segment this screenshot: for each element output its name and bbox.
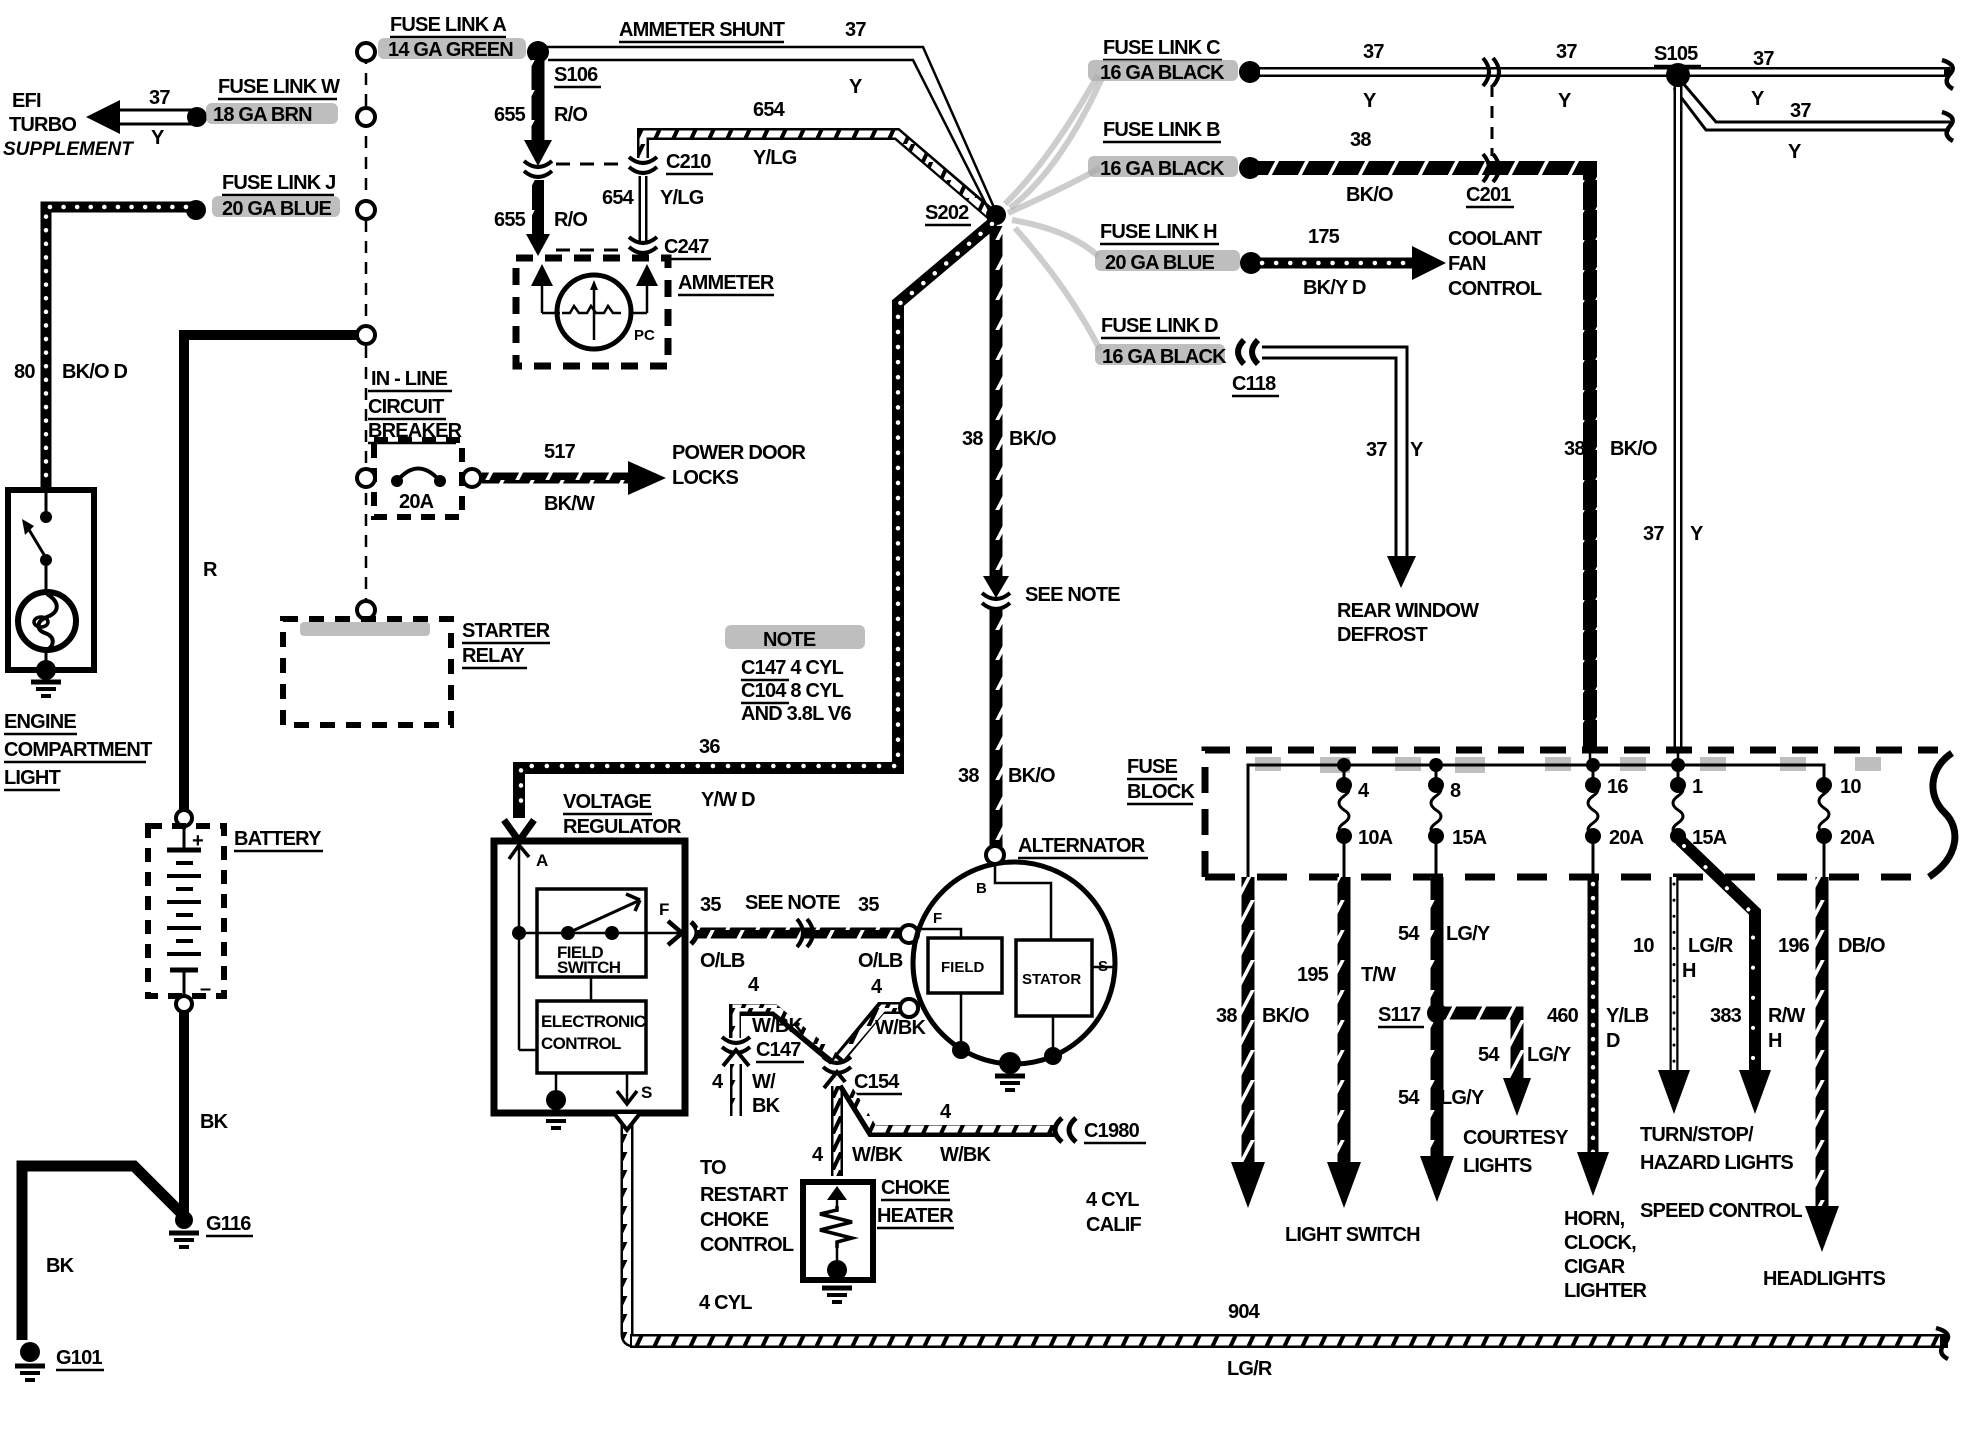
svg-text:AMMETER: AMMETER <box>678 272 775 294</box>
svg-text:655: 655 <box>494 104 526 126</box>
svg-text:H: H <box>1768 1030 1782 1052</box>
svg-text:D: D <box>1606 1030 1620 1052</box>
svg-text:W/BK: W/BK <box>852 1144 903 1166</box>
svg-text:R/O: R/O <box>554 104 587 126</box>
svg-text:CONTROL: CONTROL <box>700 1234 794 1256</box>
svg-text:C201: C201 <box>1466 184 1511 206</box>
svg-text:54: 54 <box>1398 923 1420 945</box>
svg-text:654: 654 <box>753 99 786 121</box>
svg-text:C147: C147 <box>756 1039 801 1061</box>
svg-text:IN - LINE: IN - LINE <box>371 368 448 390</box>
svg-text:REGULATOR: REGULATOR <box>563 816 682 838</box>
svg-text:37: 37 <box>1366 439 1387 461</box>
svg-text:BK: BK <box>200 1111 229 1133</box>
svg-text:Y/LB: Y/LB <box>1606 1005 1649 1027</box>
svg-text:BK/O D: BK/O D <box>62 361 128 383</box>
svg-text:38: 38 <box>1216 1005 1237 1027</box>
svg-text:FAN: FAN <box>1448 253 1486 275</box>
svg-text:C154: C154 <box>854 1071 900 1093</box>
svg-text:20 GA BLUE: 20 GA BLUE <box>1105 252 1215 274</box>
svg-text:BATTERY: BATTERY <box>234 828 322 850</box>
svg-text:36: 36 <box>699 736 720 758</box>
svg-text:TO: TO <box>700 1157 726 1179</box>
svg-text:B: B <box>976 880 987 897</box>
svg-text:W/: W/ <box>752 1071 776 1093</box>
svg-text:38: 38 <box>962 428 983 450</box>
svg-text:–: – <box>200 978 211 1000</box>
svg-text:ELECTRONIC: ELECTRONIC <box>541 1012 646 1031</box>
svg-text:O/LB: O/LB <box>700 950 745 972</box>
svg-text:LG/Y: LG/Y <box>1440 1087 1485 1109</box>
svg-text:SEE NOTE: SEE NOTE <box>745 892 840 914</box>
svg-text:FUSE LINK H: FUSE LINK H <box>1100 221 1217 243</box>
svg-text:F: F <box>933 910 942 927</box>
svg-text:10A: 10A <box>1358 827 1393 849</box>
svg-text:37: 37 <box>845 19 866 41</box>
svg-text:Y: Y <box>1690 523 1704 545</box>
svg-text:Y/LG: Y/LG <box>660 187 704 209</box>
svg-text:BLOCK: BLOCK <box>1127 781 1195 803</box>
svg-text:Y: Y <box>1410 439 1424 461</box>
svg-text:FUSE LINK D: FUSE LINK D <box>1101 315 1218 337</box>
svg-text:S117: S117 <box>1378 1004 1421 1026</box>
svg-text:COMPARTMENT: COMPARTMENT <box>4 739 152 761</box>
svg-text:BK: BK <box>752 1095 781 1117</box>
svg-text:RELAY: RELAY <box>462 645 525 667</box>
svg-text:CIRCUIT: CIRCUIT <box>368 396 444 418</box>
svg-text:16 GA BLACK: 16 GA BLACK <box>1100 158 1225 180</box>
svg-text:BK/O: BK/O <box>1009 428 1056 450</box>
svg-text:AMMETER SHUNT: AMMETER SHUNT <box>619 19 785 41</box>
svg-text:STARTER: STARTER <box>462 620 551 642</box>
svg-text:BK/O: BK/O <box>1610 438 1657 460</box>
svg-text:NOTE: NOTE <box>763 629 816 651</box>
svg-text:HORN,: HORN, <box>1564 1208 1625 1230</box>
svg-text:DB/O: DB/O <box>1838 935 1885 957</box>
svg-text:383: 383 <box>1710 1005 1742 1027</box>
svg-text:4: 4 <box>812 1144 824 1166</box>
svg-text:37: 37 <box>1363 41 1384 63</box>
svg-text:W/BK: W/BK <box>940 1144 991 1166</box>
svg-text:G116: G116 <box>206 1213 251 1235</box>
svg-text:4: 4 <box>871 976 883 998</box>
svg-text:AND 3.8L V6: AND 3.8L V6 <box>741 703 851 725</box>
svg-text:FUSE: FUSE <box>1127 756 1178 778</box>
svg-text:SPEED CONTROL: SPEED CONTROL <box>1640 1200 1802 1222</box>
svg-text:HEADLIGHTS: HEADLIGHTS <box>1763 1268 1885 1290</box>
svg-text:38: 38 <box>1564 438 1585 460</box>
svg-text:+: + <box>192 830 203 852</box>
svg-text:Y: Y <box>849 76 863 98</box>
svg-text:FUSE LINK A: FUSE LINK A <box>390 14 506 36</box>
svg-text:35: 35 <box>700 894 721 916</box>
svg-text:S105: S105 <box>1654 43 1698 65</box>
svg-text:16: 16 <box>1607 776 1628 798</box>
svg-text:CIGAR: CIGAR <box>1564 1256 1626 1278</box>
svg-text:4 CYL: 4 CYL <box>1086 1189 1139 1211</box>
svg-text:BK/Y D: BK/Y D <box>1303 277 1366 299</box>
svg-text:S202: S202 <box>925 202 969 224</box>
svg-text:A: A <box>536 851 548 870</box>
svg-text:VOLTAGE: VOLTAGE <box>563 791 652 813</box>
svg-text:20 GA BLUE: 20 GA BLUE <box>222 198 332 220</box>
svg-text:37: 37 <box>1753 48 1774 70</box>
svg-text:4: 4 <box>712 1071 724 1093</box>
svg-text:R: R <box>203 559 218 581</box>
svg-text:SWITCH: SWITCH <box>557 958 621 977</box>
svg-text:Y: Y <box>1558 90 1572 112</box>
svg-text:O/LB: O/LB <box>858 950 903 972</box>
svg-text:TURBO: TURBO <box>9 114 76 136</box>
svg-text:20A: 20A <box>1840 827 1875 849</box>
svg-text:54: 54 <box>1478 1044 1500 1066</box>
svg-text:FUSE LINK W: FUSE LINK W <box>218 76 340 98</box>
svg-text:CHOKE: CHOKE <box>881 1177 950 1199</box>
svg-text:14 GA GREEN: 14 GA GREEN <box>388 39 513 61</box>
svg-text:W/BK: W/BK <box>752 1015 803 1037</box>
svg-text:C118: C118 <box>1232 373 1276 395</box>
svg-text:SUPPLEMENT: SUPPLEMENT <box>3 139 134 160</box>
svg-text:175: 175 <box>1308 226 1340 248</box>
svg-text:654: 654 <box>602 187 635 209</box>
svg-text:RESTART: RESTART <box>700 1184 788 1206</box>
svg-text:4 CYL: 4 CYL <box>699 1292 752 1314</box>
svg-text:LG/R: LG/R <box>1227 1358 1273 1380</box>
svg-text:655: 655 <box>494 209 526 231</box>
svg-text:BK/O: BK/O <box>1008 765 1055 787</box>
svg-text:80: 80 <box>14 361 35 383</box>
svg-text:H: H <box>1682 960 1696 982</box>
svg-text:1: 1 <box>1692 776 1703 798</box>
svg-text:R/O: R/O <box>554 209 587 231</box>
svg-text:15A: 15A <box>1692 827 1727 849</box>
svg-text:4: 4 <box>1358 780 1370 802</box>
svg-text:PC: PC <box>634 327 655 344</box>
svg-text:FUSE LINK J: FUSE LINK J <box>222 172 335 194</box>
svg-text:16 GA BLACK: 16 GA BLACK <box>1100 62 1225 84</box>
svg-text:T/W: T/W <box>1361 964 1396 986</box>
svg-text:CONTROL: CONTROL <box>1448 278 1542 300</box>
svg-text:20A: 20A <box>399 491 434 513</box>
svg-text:37: 37 <box>1643 523 1664 545</box>
svg-text:W/BK: W/BK <box>875 1017 926 1039</box>
svg-text:LIGHT: LIGHT <box>4 767 61 789</box>
svg-text:LG/R: LG/R <box>1688 935 1734 957</box>
svg-text:BK/O: BK/O <box>1262 1005 1309 1027</box>
svg-text:STATOR: STATOR <box>1022 971 1081 988</box>
svg-text:LIGHTER: LIGHTER <box>1564 1280 1648 1302</box>
svg-text:POWER DOOR: POWER DOOR <box>672 442 806 464</box>
svg-text:EFI: EFI <box>12 90 41 112</box>
svg-text:S: S <box>641 1083 652 1102</box>
svg-text:BK/O: BK/O <box>1346 184 1393 206</box>
svg-text:35: 35 <box>858 894 879 916</box>
svg-text:R/W: R/W <box>1768 1005 1805 1027</box>
svg-text:CHOKE: CHOKE <box>700 1209 769 1231</box>
svg-text:38: 38 <box>958 765 979 787</box>
svg-text:C147 4 CYL: C147 4 CYL <box>741 657 844 679</box>
svg-text:DEFROST: DEFROST <box>1337 624 1428 646</box>
svg-text:Y/LG: Y/LG <box>753 147 797 169</box>
svg-text:BK/W: BK/W <box>544 493 595 515</box>
svg-text:F: F <box>659 900 669 919</box>
svg-text:18 GA BRN: 18 GA BRN <box>213 104 312 126</box>
svg-text:G101: G101 <box>56 1347 102 1369</box>
svg-text:54: 54 <box>1398 1087 1420 1109</box>
svg-text:904: 904 <box>1228 1301 1261 1323</box>
svg-text:FUSE LINK C: FUSE LINK C <box>1103 37 1220 59</box>
svg-text:37: 37 <box>149 87 170 109</box>
svg-text:Y: Y <box>1751 88 1765 110</box>
svg-text:CALIF: CALIF <box>1086 1214 1141 1236</box>
svg-text:4: 4 <box>940 1101 952 1123</box>
svg-text:38: 38 <box>1350 129 1371 151</box>
svg-text:196: 196 <box>1778 935 1810 957</box>
svg-text:460: 460 <box>1547 1005 1579 1027</box>
svg-text:195: 195 <box>1297 964 1329 986</box>
svg-text:LG/Y: LG/Y <box>1527 1044 1572 1066</box>
svg-text:Y/W D: Y/W D <box>701 789 755 811</box>
svg-text:15A: 15A <box>1452 827 1487 849</box>
svg-text:LG/Y: LG/Y <box>1446 923 1491 945</box>
svg-text:LIGHTS: LIGHTS <box>1463 1155 1532 1177</box>
svg-text:C104 8 CYL: C104 8 CYL <box>741 680 844 702</box>
svg-text:COURTESY: COURTESY <box>1463 1127 1569 1149</box>
svg-text:37: 37 <box>1790 100 1811 122</box>
svg-text:HAZARD LIGHTS: HAZARD LIGHTS <box>1640 1152 1793 1174</box>
svg-text:ENGINE: ENGINE <box>4 711 76 733</box>
svg-text:HEATER: HEATER <box>877 1205 954 1227</box>
svg-text:FUSE LINK B: FUSE LINK B <box>1103 119 1220 141</box>
svg-text:4: 4 <box>748 974 760 996</box>
svg-text:517: 517 <box>544 441 576 463</box>
svg-text:20A: 20A <box>1609 827 1644 849</box>
svg-text:Y: Y <box>1788 141 1802 163</box>
svg-text:CONTROL: CONTROL <box>541 1034 621 1053</box>
svg-text:COOLANT: COOLANT <box>1448 228 1542 250</box>
svg-text:16 GA BLACK: 16 GA BLACK <box>1102 346 1227 368</box>
svg-text:10: 10 <box>1633 935 1654 957</box>
svg-text:FIELD: FIELD <box>941 959 984 976</box>
svg-text:ALTERNATOR: ALTERNATOR <box>1018 835 1146 857</box>
svg-text:C210: C210 <box>666 151 711 173</box>
svg-text:C1980: C1980 <box>1084 1120 1140 1142</box>
svg-text:SEE NOTE: SEE NOTE <box>1025 584 1120 606</box>
svg-text:S106: S106 <box>554 64 598 86</box>
svg-text:REAR WINDOW: REAR WINDOW <box>1337 600 1479 622</box>
svg-text:LOCKS: LOCKS <box>672 467 738 489</box>
svg-text:TURN/STOP/: TURN/STOP/ <box>1640 1124 1754 1146</box>
svg-text:8: 8 <box>1450 780 1461 802</box>
svg-text:10: 10 <box>1840 776 1861 798</box>
svg-text:Y: Y <box>1363 90 1377 112</box>
svg-text:LIGHT SWITCH: LIGHT SWITCH <box>1285 1224 1420 1246</box>
svg-text:Y: Y <box>151 127 165 149</box>
svg-text:37: 37 <box>1556 41 1577 63</box>
svg-text:CLOCK,: CLOCK, <box>1564 1232 1636 1254</box>
svg-text:BK: BK <box>46 1255 75 1277</box>
